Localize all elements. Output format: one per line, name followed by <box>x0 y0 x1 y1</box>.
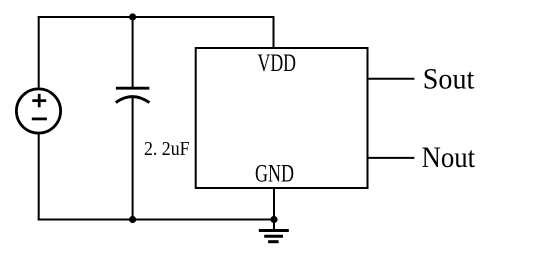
wire capacitor top lead <box>132 17 134 88</box>
svg-text:GND: GND <box>255 159 294 188</box>
IC U1 body <box>196 48 368 188</box>
wire left vertical upper segment <box>38 16 40 89</box>
capacitor C1 <box>116 88 150 102</box>
svg-text:Nout: Nout <box>422 141 476 174</box>
wire Sout stub <box>368 78 415 80</box>
wire Nout stub <box>368 157 415 159</box>
wire VDD feed vertical <box>273 16 275 49</box>
node junction bottom right (GND / bottom rail) <box>270 216 277 223</box>
ground <box>259 231 289 242</box>
node junction bottom left (cap / bottom rail) <box>129 216 136 223</box>
wire top horizontal (source top to VDD feed corner) <box>38 16 275 18</box>
wire capacitor bottom lead <box>132 98 134 220</box>
wire bottom horizontal <box>38 219 274 221</box>
svg-text:Sout: Sout <box>423 63 475 96</box>
wire GND drop vertical <box>273 188 275 230</box>
voltage source V1 <box>16 89 60 133</box>
wire left vertical lower segment <box>38 134 40 221</box>
svg-text:2. 2uF: 2. 2uF <box>144 139 190 160</box>
svg-text:VDD: VDD <box>258 48 297 77</box>
node junction top (cap / top rail) <box>129 13 136 20</box>
